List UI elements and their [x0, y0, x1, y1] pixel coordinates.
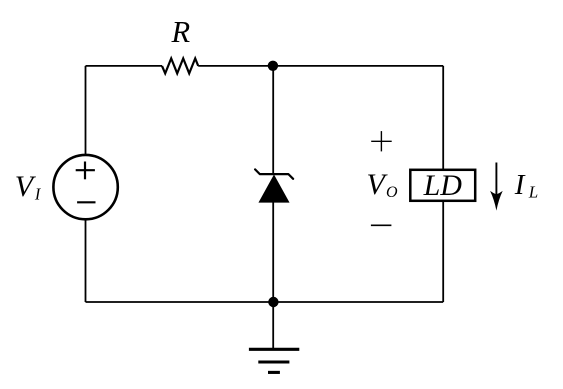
svg-text:L: L: [528, 183, 538, 202]
svg-text:R: R: [170, 15, 190, 49]
svg-text:LD: LD: [423, 169, 463, 202]
svg-text:O: O: [386, 184, 398, 201]
svg-text:I: I: [514, 169, 526, 201]
